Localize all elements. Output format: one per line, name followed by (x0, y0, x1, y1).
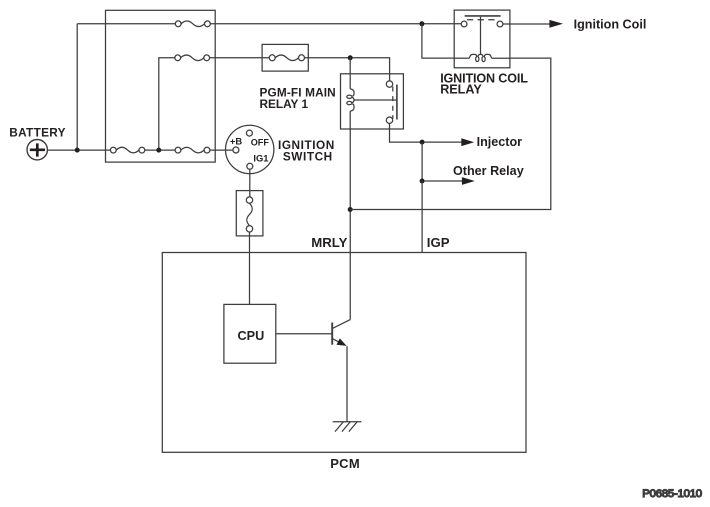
svg-text:Ignition Coil: Ignition Coil (574, 17, 647, 31)
node F2 branch junction (156, 148, 161, 153)
switch IGNITION SWITCH (226, 125, 274, 173)
wire top rail left (77, 23, 175, 25)
wire MRLY: relay coil down to PCM transistor (349, 129, 351, 320)
node battery junction (75, 148, 80, 153)
label IGNITION SWITCH (278, 138, 335, 163)
svg-text:RELAY: RELAY (440, 82, 482, 96)
wire top rail to ignition coil relay (210, 23, 461, 25)
relay contact dashed guide (467, 19, 497, 21)
wire injector node to other-relay node (421, 142, 423, 181)
relay armature stem (480, 17, 482, 55)
wire F5 to CPU (249, 232, 251, 304)
wire loop MRLY node to ignition coil relay coil (350, 58, 551, 209)
svg-text:CPU: CPU (238, 329, 265, 343)
relay contact bar (465, 15, 501, 17)
relay armature link (354, 99, 397, 101)
wire injector arrow (425, 141, 462, 143)
node injector junction (420, 140, 425, 145)
node other relay junction (420, 179, 425, 184)
battery BATTERY (27, 140, 47, 160)
relay IGNITION COIL RELAY box (454, 10, 510, 68)
svg-text:SWITCH: SWITCH (283, 149, 333, 163)
fuse F1 (top) (175, 21, 210, 27)
ground (333, 422, 362, 432)
fuse F5 (vertical, below ignition switch) (236, 191, 263, 236)
relay contact dashed guide (392, 87, 394, 119)
wire ignition coil arrow (503, 23, 550, 25)
node top rail junction (419, 21, 424, 26)
svg-text:Injector: Injector (477, 135, 523, 149)
wire IG1 to fuse F5 (249, 169, 251, 197)
wire F2 branch riser (159, 58, 175, 150)
wire battery to fuse box (47, 149, 110, 151)
arrowhead other relay (462, 177, 475, 185)
wire PGM-FI fuse to relay contact (305, 58, 390, 81)
box CPU (224, 304, 276, 363)
box PCM (162, 253, 526, 453)
relay contact right (497, 21, 503, 27)
arrowhead injector (461, 138, 474, 146)
svg-text:MRLY: MRLY (311, 235, 347, 250)
relay contact left (461, 21, 467, 27)
relay coil L2 (ignition coil relay) (454, 54, 510, 61)
transistor Q1 (332, 320, 350, 422)
relay contact top (386, 81, 392, 87)
node coil branch junction (348, 55, 353, 60)
wire relay coil branch to top rail junction (422, 24, 454, 58)
fuse box (106, 10, 216, 162)
node MRLY loop junction (348, 207, 353, 212)
svg-text:+B: +B (230, 136, 242, 147)
svg-text:PCM: PCM (330, 456, 360, 471)
relay contact bottom (386, 117, 392, 123)
fuse F2 (middle) (175, 55, 210, 61)
relay PGM-FI MAIN RELAY 1 box (341, 74, 404, 129)
svg-text:IG1: IG1 (253, 153, 268, 164)
svg-text:BATTERY: BATTERY (9, 125, 66, 139)
label IGNITION COIL RELAY (440, 71, 528, 96)
relay coil L1 (PGM-FI) (347, 58, 354, 129)
wire F3 to F4 (145, 149, 175, 151)
fuse F3 (bottom-left) (110, 147, 144, 153)
svg-text:IGP: IGP (427, 235, 450, 250)
arrowhead ignition coil (549, 20, 563, 28)
fuse F4 (bottom-right) (175, 147, 210, 153)
wire relay contact to injector node (390, 123, 420, 142)
fuse PGM-FI (small box) (262, 44, 308, 71)
relay contact bar (396, 85, 398, 120)
svg-text:Other Relay: Other Relay (453, 164, 524, 178)
svg-text:RELAY 1: RELAY 1 (260, 97, 309, 111)
svg-text:OFF: OFF (251, 137, 270, 147)
label PGM-FI MAIN RELAY 1 (260, 85, 336, 111)
svg-text:P0685-1010: P0685-1010 (642, 488, 702, 500)
wire CPU to transistor base (275, 333, 331, 335)
wire battery riser to top rail (76, 24, 78, 150)
wire F2 rail to PGM-FI fuse (210, 57, 270, 59)
wire other relay arrow (425, 180, 462, 182)
wire IGP drop to PCM (421, 181, 423, 253)
wire F4 to ignition switch +B (210, 149, 233, 151)
